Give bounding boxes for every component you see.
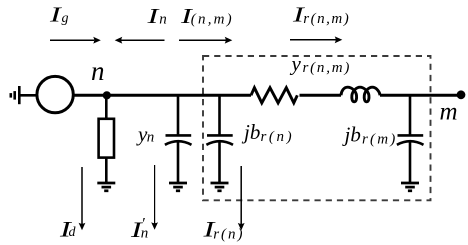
svg-text:jb: jb: [342, 123, 361, 147]
svg-text:jb: jb: [241, 120, 260, 144]
current arrow I_d (down): [79, 167, 86, 230]
node n: [103, 91, 111, 99]
ground below y_n: [169, 183, 187, 191]
inductor L (3 loops): [341, 87, 380, 102]
svg-text:y: y: [290, 52, 302, 76]
svg-text:r(m): r(m): [362, 132, 397, 148]
svg-text:m: m: [440, 99, 458, 126]
capacitor y_n: [165, 95, 192, 183]
wire: resistor to inductor: [300, 94, 342, 97]
svg-text:n: n: [159, 11, 167, 27]
svg-text:r(n,m): r(n,m): [303, 11, 350, 27]
capacitor jb_r(n): [206, 95, 233, 183]
svg-text:r(n,m): r(n,m): [303, 60, 352, 76]
wire: inductor to node m: [380, 94, 461, 97]
current arrow I_r(n) (down): [238, 166, 245, 231]
svg-text:n: n: [141, 225, 149, 241]
svg-text:g: g: [62, 11, 69, 26]
current arrow I_n (left): [115, 37, 165, 44]
svg-text:I: I: [146, 4, 160, 28]
svg-text:d: d: [69, 225, 77, 240]
dashed box around r(n,m) branch: [203, 56, 431, 200]
current arrow I'_n (down): [151, 165, 158, 230]
current arrow I_g (right): [50, 37, 101, 44]
svg-text:I: I: [48, 3, 62, 27]
node m: [457, 90, 466, 99]
current arrow I_r(n,m) (right): [290, 36, 342, 43]
svg-text:(n,m): (n,m): [191, 11, 234, 27]
svg-text:n: n: [147, 130, 155, 146]
resistor (box) below node n: [99, 95, 114, 183]
ground below jb_r(n): [211, 183, 229, 191]
current arrow I_(n,m) (right): [179, 37, 232, 44]
wire: source to resistor: [75, 94, 252, 97]
svg-text:n: n: [91, 56, 105, 86]
ground (left of source): [11, 86, 36, 104]
ground below resistor: [97, 183, 115, 191]
capacitor jb_r(m): [397, 95, 424, 183]
resistor y_r(n,m) (zigzag): [251, 88, 297, 103]
source G1 (circle): [37, 76, 73, 112]
svg-text:r(n): r(n): [261, 129, 295, 145]
ground below jb_r(m): [401, 183, 419, 191]
svg-text:r(n): r(n): [213, 227, 244, 243]
